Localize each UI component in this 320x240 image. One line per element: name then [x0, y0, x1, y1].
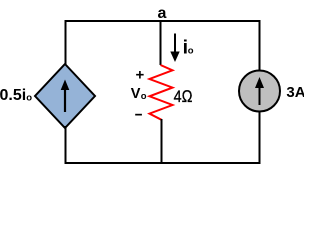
svg-text:0.5io: 0.5io	[0, 87, 32, 104]
dependent current source 0.5io (diamond)	[35, 64, 95, 128]
wire middle vertical bottom segment	[161, 119, 163, 164]
wire left vertical top segment	[65, 20, 67, 66]
svg-text:4Ω: 4Ω	[174, 88, 193, 106]
current arrow io	[174, 34, 176, 54]
resistor 4ohm (red zigzag)	[150, 65, 173, 120]
svg-text:3A: 3A	[286, 84, 304, 101]
svg-text:o: o	[188, 46, 194, 57]
independent current source 3A (circle)	[239, 71, 280, 112]
voltage polarity minus	[135, 114, 142, 116]
svg-text:+: +	[136, 67, 145, 84]
svg-text:o: o	[141, 91, 147, 102]
wire middle vertical top segment	[160, 20, 162, 65]
svg-text:a: a	[158, 5, 167, 22]
wire top horizontal (node a net)	[65, 20, 261, 22]
wire bottom horizontal	[65, 162, 261, 164]
wire right vertical top segment	[259, 20, 261, 71]
wire left vertical bottom segment	[65, 126, 67, 164]
label 4ohm	[174, 88, 193, 106]
svg-text:V: V	[131, 86, 141, 102]
wire right vertical bottom segment	[259, 111, 261, 164]
